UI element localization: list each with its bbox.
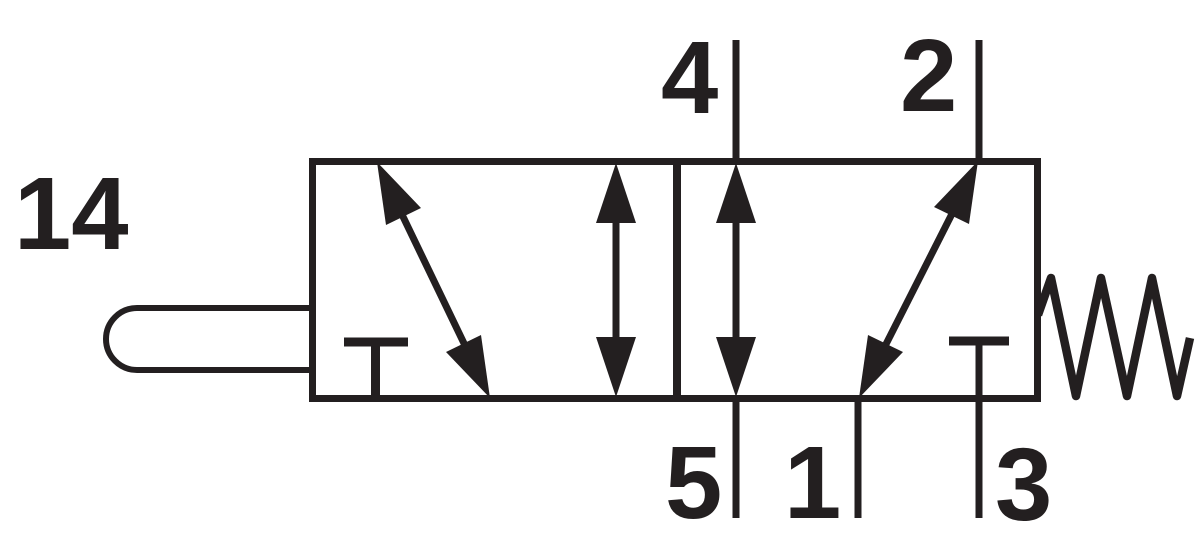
flow arrow diagonal left xyxy=(377,162,490,398)
manual plunger actuator xyxy=(106,308,314,370)
flow arrow vertical right xyxy=(716,163,756,397)
port 5 line xyxy=(733,395,740,518)
port 2 line xyxy=(976,40,983,165)
valve body xyxy=(313,162,1038,399)
flow arrow vertical left xyxy=(596,163,636,397)
port 3 line xyxy=(976,341,983,518)
flow arrow diagonal right xyxy=(859,161,978,398)
port 1 line xyxy=(855,395,862,518)
svg-text:2: 2 xyxy=(900,18,957,133)
svg-text:14: 14 xyxy=(14,156,129,271)
svg-text:5: 5 xyxy=(665,425,722,540)
svg-text:4: 4 xyxy=(661,20,718,135)
blocked port T left xyxy=(344,342,408,398)
blocked port T right xyxy=(949,337,1009,346)
svg-text:3: 3 xyxy=(995,427,1052,542)
port 4 line xyxy=(733,40,740,165)
position divider xyxy=(673,162,681,399)
spring xyxy=(1038,278,1190,396)
svg-text:1: 1 xyxy=(784,425,841,540)
